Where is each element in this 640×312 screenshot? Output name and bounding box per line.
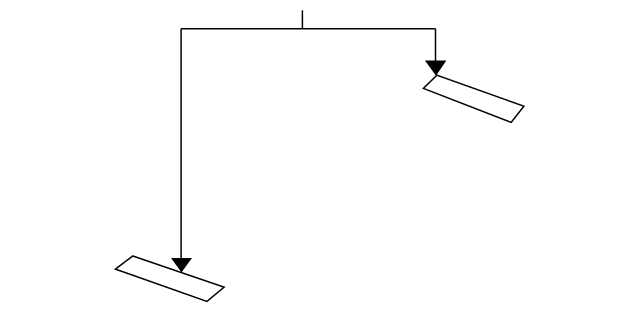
wire horizontal bus bbox=[181, 28, 435, 30]
wire right vertical drop bbox=[435, 29, 437, 62]
parallelogram top-right bbox=[423, 75, 524, 122]
arrowhead left bbox=[172, 259, 191, 272]
parallelogram bottom-left bbox=[115, 256, 224, 301]
wire top stub bbox=[301, 10, 303, 28]
wire left vertical drop bbox=[180, 29, 182, 260]
arrowhead right bbox=[426, 61, 446, 75]
